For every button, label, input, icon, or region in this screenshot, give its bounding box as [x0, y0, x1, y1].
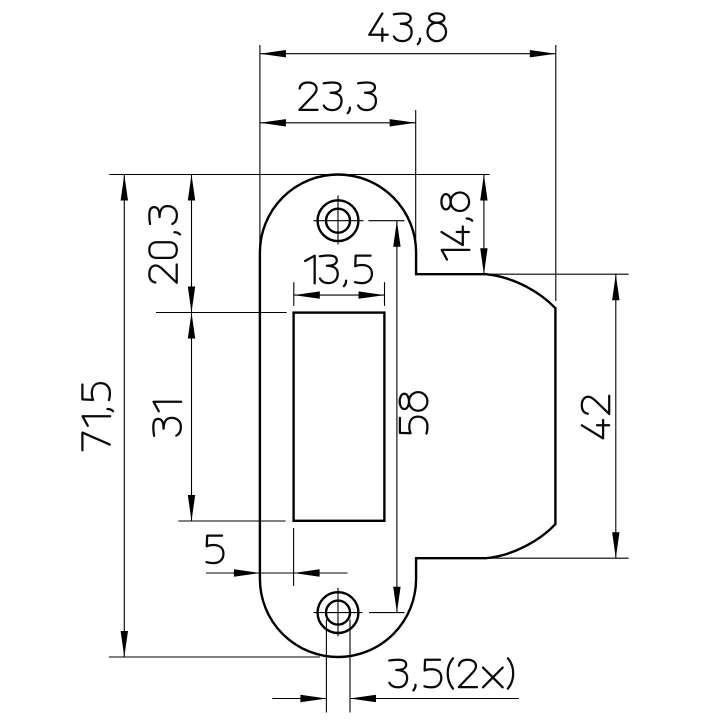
extension line 5 right: [293, 528, 295, 586]
dimension 42 line: [615, 274, 617, 558]
extension line 3,5 left: [325, 620, 327, 713]
dimension 13,5 text: [305, 256, 372, 287]
dimension 5 text: [207, 536, 224, 564]
extension line 42 top: [483, 273, 629, 275]
dimension 42 text: [582, 396, 609, 439]
extension line bottom tangent: [109, 656, 320, 658]
screw hole bottom: bore: [326, 601, 350, 625]
screw hole top centerlines: [313, 195, 404, 244]
dimension 3,5(2x) text: [389, 658, 513, 690]
dimension 23,3 line: [260, 122, 416, 124]
screw hole bottom: countersink: [318, 592, 359, 633]
screw hole bottom centerlines: [313, 588, 404, 637]
screw hole top: countersink: [318, 200, 359, 241]
extension line rect bottom left: [178, 520, 285, 522]
dimension 31 text: [153, 402, 181, 436]
dimension 14,8 line: [483, 175, 485, 275]
dimension 13,5 line: [294, 294, 385, 296]
dimension 14,8 text: [441, 192, 472, 259]
dimension 43,8 text: [369, 13, 446, 44]
extension line 13,5 left: [293, 282, 295, 306]
dimension 71,5 line: [123, 175, 125, 658]
dimension 20,3 text: [149, 206, 180, 283]
extension line left edge (43,8 / 23,3): [259, 45, 261, 253]
extension line top tangent: [109, 174, 489, 176]
dimension 3,5(2x) lines: [272, 698, 326, 700]
strike plate outline: [260, 175, 556, 658]
extension line 23,3 right: [415, 110, 417, 253]
extension line rect top left: [156, 312, 287, 314]
latch rectangle cutout: [294, 313, 385, 521]
dimension 23,3 text: [299, 83, 376, 114]
dimension 58 line: [396, 221, 398, 613]
extension line 42 bottom: [489, 557, 629, 559]
extension line 13,5 right: [384, 282, 386, 306]
extension line 3,5 right: [349, 620, 351, 713]
screw hole top: bore: [326, 209, 350, 233]
extension line right edge 43,8: [555, 45, 557, 301]
dimension 43,8 line: [260, 53, 556, 55]
dimension 71,5 text: [82, 383, 113, 450]
dimension 20,3 and 31 shared line: [191, 175, 193, 522]
dimension 5 line: [206, 572, 348, 574]
dimension 58 text: [400, 392, 428, 433]
